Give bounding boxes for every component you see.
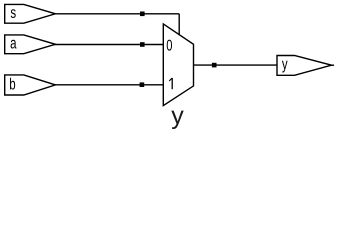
label s: [11, 9, 16, 18]
label a: [11, 40, 17, 49]
mux M2_1 body: [163, 24, 193, 106]
output wire: [194, 64, 278, 66]
input port S: [5, 4, 56, 23]
junction dot on s wire: [140, 12, 145, 17]
junction dot on a wire: [140, 42, 145, 47]
mux pin label 1: [171, 78, 173, 89]
output pin stub: [332, 64, 335, 66]
wire a: [54, 44, 163, 46]
junction dot on output wire: [212, 63, 217, 68]
junction dot on b wire: [140, 82, 145, 87]
wire s horizontal: [54, 13, 179, 15]
output port Y: [277, 56, 332, 76]
wire b: [54, 84, 163, 86]
input port B: [5, 75, 56, 95]
mux pin label 0: [167, 40, 172, 51]
input port A: [5, 35, 56, 54]
label y (output port): [282, 61, 288, 73]
mux instance label y: [171, 111, 183, 129]
label b: [10, 78, 15, 90]
wire s vertical into mux top: [178, 14, 180, 35]
